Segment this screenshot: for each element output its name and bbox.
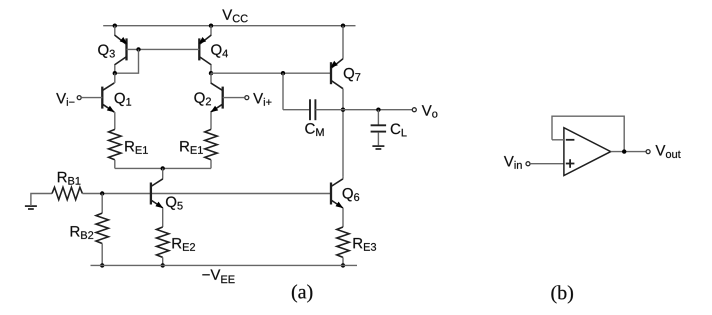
wire Q5 emitter lead <box>162 208 164 227</box>
label (a) <box>292 284 312 302</box>
label CL <box>391 124 407 137</box>
label RE1 left <box>125 141 148 154</box>
wire RE3 bottom lead <box>342 257 344 265</box>
wire -VEE rail <box>91 264 358 266</box>
node RE3-VEE junction <box>341 263 345 267</box>
label Vo <box>422 105 438 117</box>
wire Q1 emitter lead <box>114 112 116 129</box>
wire Q3 emitter lead <box>114 26 116 35</box>
node Q3 base-collector tie <box>136 47 140 51</box>
wire Q2 emitter lead <box>210 112 212 129</box>
terminal Vi- input <box>77 96 81 100</box>
wire CM left lead <box>283 109 310 111</box>
wire Q6 collector lead <box>342 177 344 179</box>
ground left <box>25 206 37 209</box>
ground below CL <box>372 146 384 149</box>
label RB1 <box>58 172 81 185</box>
label Vout <box>655 145 680 158</box>
node VCC-Q4 junction <box>209 24 213 28</box>
wire Q4 emitter lead <box>210 26 212 35</box>
wire CL bottom lead <box>377 132 379 145</box>
wire Q2 collector lead <box>210 73 212 83</box>
node tail junction <box>161 166 165 170</box>
wire Vi- to Q1 base <box>81 97 102 99</box>
transistor Q2 <box>211 83 223 112</box>
wire diff-pair emitter rail <box>115 167 211 169</box>
terminal Vo output <box>412 108 416 112</box>
node CM tap junction <box>281 71 285 75</box>
wire bias rail Q5 to Q6 <box>151 193 331 195</box>
wire RE1 left bottom lead <box>114 160 116 169</box>
wire RB2 top lead <box>101 194 103 214</box>
wire RB1 to bias rail <box>82 193 150 195</box>
wire RE2 bottom lead <box>162 257 164 265</box>
node Q3-Q1 collector junction <box>113 71 117 75</box>
transistor Q5 <box>151 179 163 208</box>
op-amp U1 <box>564 128 611 176</box>
wire Q1 collector lead <box>114 73 116 83</box>
transistor Q1 <box>102 83 114 112</box>
wire Vin to op-amp + input <box>530 163 564 165</box>
node CL junction <box>376 108 380 112</box>
resistor RE1 (right) <box>205 129 217 159</box>
wire VCC rail <box>103 25 355 27</box>
resistor RB2 <box>96 213 108 243</box>
wire RE1 right bottom lead <box>210 160 212 169</box>
wire Q3 diode connection <box>115 49 139 73</box>
transistor Q7 <box>330 59 343 89</box>
wire Q7 collector to Q6 collector <box>342 89 344 177</box>
label Q4 <box>211 44 228 57</box>
wire - input stub <box>552 139 564 141</box>
label RE3 <box>354 238 377 251</box>
resistor RB1 <box>52 187 82 199</box>
node VCC-Q3 junction <box>113 24 117 28</box>
transistor Q4 <box>199 35 212 65</box>
wire Q7 emitter lead <box>342 26 344 59</box>
label Q3 <box>98 45 115 58</box>
node VCC-Q7 junction <box>341 24 345 28</box>
capacitor CL <box>371 125 387 131</box>
wire op-amp output <box>611 151 647 153</box>
wire Q3-Q4 base rail <box>127 48 200 50</box>
resistor RE3 <box>337 227 349 257</box>
terminal Vout <box>646 150 650 154</box>
wire CL top lead <box>377 110 379 125</box>
wire feedback loop <box>552 116 624 151</box>
node RB junction <box>100 191 104 195</box>
wire output row <box>343 109 412 111</box>
wire first-stage output to Q7 base <box>211 72 331 74</box>
label CM <box>305 123 323 136</box>
wire Q4 collector lead <box>210 65 212 73</box>
transistor Q6 <box>331 179 343 208</box>
transistor Q3 <box>115 35 128 65</box>
label RB2 <box>71 226 94 239</box>
node compensation junction <box>341 108 345 112</box>
label (b) <box>551 285 573 303</box>
label Q6 <box>343 188 360 201</box>
wire RB2 bottom lead <box>101 244 103 266</box>
wire CM right lead <box>315 109 343 111</box>
label Vi+ <box>253 93 271 106</box>
wire Q5 collector lead <box>162 168 164 178</box>
terminal Vi+ input <box>245 96 249 100</box>
capacitor CM <box>310 99 315 120</box>
node RE2-VEE junction <box>161 263 165 267</box>
node feedback junction <box>622 149 626 153</box>
label Q2 <box>194 92 211 105</box>
label Q5 <box>166 197 183 210</box>
label -VEE <box>202 269 234 283</box>
wire Q3 collector lead <box>114 65 116 73</box>
label VCC <box>222 9 247 22</box>
op-amp + sign <box>566 159 575 168</box>
label RE2 <box>173 238 196 251</box>
label Q1 <box>115 93 132 106</box>
label Q7 <box>344 68 361 81</box>
wire ground to RB1 <box>31 194 52 207</box>
op-amp - sign <box>566 139 575 141</box>
terminal Vin input <box>526 162 530 166</box>
label RE1 right <box>180 141 203 154</box>
wire CM tap vertical <box>282 73 284 110</box>
wire Q6 emitter lead <box>342 208 344 227</box>
node RB2-VEE junction <box>100 263 104 267</box>
node Q4-Q2 collector junction <box>209 71 213 75</box>
wire Q2 base to Vi+ <box>223 97 245 99</box>
resistor RE2 <box>157 227 169 257</box>
label Vin <box>504 156 522 169</box>
resistor RE1 (left) <box>109 129 121 159</box>
label Vi- <box>56 93 74 106</box>
